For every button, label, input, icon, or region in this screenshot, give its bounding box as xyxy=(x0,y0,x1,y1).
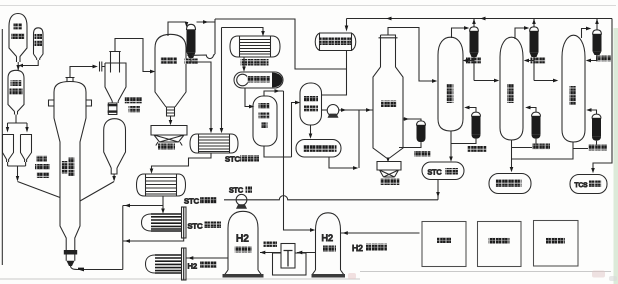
vessel: gas-liquid separator xyxy=(253,96,277,146)
wire STC exchanger bottom to STC heater xyxy=(152,153,212,171)
wire hoppers to chute xyxy=(8,162,26,180)
wire reboiler C to column C xyxy=(573,110,597,149)
wire hop return to wash tower xyxy=(192,55,215,59)
wire water cooler gas out loop xyxy=(197,19,216,54)
condenser: water cooler A xyxy=(470,27,479,32)
collector tank 1 xyxy=(151,126,187,146)
vessel: H2 storage tank xyxy=(313,213,344,274)
svg-text:H2: H2 xyxy=(352,243,363,253)
svg-text:TCS: TCS xyxy=(575,182,589,189)
wire condenser A reflux and product xyxy=(467,57,495,81)
border bottom xyxy=(0,272,611,280)
pump: stripper feed pump xyxy=(322,109,328,111)
utility box: refrigeration station xyxy=(534,221,579,267)
wire column A overhead xyxy=(452,28,467,38)
wire top bus xyxy=(347,19,613,171)
green right edge strip xyxy=(614,28,618,284)
wash tower bottom outlet flange xyxy=(167,107,175,116)
wire cold loop box xyxy=(215,19,347,95)
wire chiller2 to gas-liquid separator xyxy=(245,88,250,107)
wire reboiler A to column A xyxy=(451,108,476,144)
vessel: cyclone dust bin xyxy=(104,119,126,174)
vessel: chlorosilane intermediate tank xyxy=(300,83,322,125)
reactor bottom flange xyxy=(64,250,77,255)
vessel: H2 buffer tank xyxy=(225,211,261,274)
wire STC electric heater outlet to reactor loop xyxy=(123,238,184,241)
wire dust chute into reactor xyxy=(80,182,114,202)
wire top bus to waste gas station xyxy=(346,19,348,27)
watermark smudge left xyxy=(348,273,356,279)
reboiler: column B reboiler xyxy=(532,112,541,116)
label: water cooler C xyxy=(596,56,611,62)
vessel: STC storage tank xyxy=(422,162,464,180)
wire condenser B reflux and product xyxy=(528,57,554,81)
wire pump to stripper column xyxy=(339,109,373,111)
wire chute into reactor xyxy=(18,182,61,198)
wire reactor loop vertical xyxy=(122,206,124,270)
label: water cooler B xyxy=(531,58,546,64)
label: collector tank 2 xyxy=(381,179,400,186)
wire left recycle line xyxy=(1,29,3,265)
label: wash tower xyxy=(161,58,178,65)
wire STC tank to pump line xyxy=(437,180,439,200)
heat exchanger: STC electric heater xyxy=(142,214,152,231)
label: chlorination reactor xyxy=(69,158,75,177)
wire wash tower overhead to water cooler xyxy=(168,22,187,36)
wire condenser A vent to bus xyxy=(473,19,475,27)
wire drying bin down to transfer bin xyxy=(17,62,19,70)
label: distillation column B xyxy=(507,84,514,103)
wire cold line to first-stage chiller xyxy=(222,28,264,132)
reactor bottom valve xyxy=(67,261,75,266)
wire stripper to reboiler xyxy=(399,119,421,148)
vessel: buffer bin xyxy=(34,28,44,60)
wire branch to reactor loop upper xyxy=(123,205,163,207)
wire column C overhead xyxy=(582,29,589,39)
wire stripper bottoms to collector xyxy=(387,158,389,160)
water cooler (wash gas) xyxy=(187,24,196,30)
wire transfer bin split to two feed hoppers xyxy=(8,115,28,130)
vessel: feed hopper 2 xyxy=(21,135,32,163)
wire condenser C reflux xyxy=(590,55,598,61)
svg-text:H2: H2 xyxy=(236,234,249,245)
vessel: chlorosilane storage tank xyxy=(296,140,341,158)
utility box: purification room xyxy=(422,222,466,267)
heat exchanger: H2 electric heater xyxy=(146,255,156,273)
wire compressor to H2 buffer tank xyxy=(260,252,281,254)
wire buffer bin to transfer line xyxy=(23,60,38,66)
heat exchanger: STC heat exchanger xyxy=(190,134,238,153)
column: stripper column xyxy=(373,35,403,158)
reactor top nozzle xyxy=(66,78,75,83)
svg-text:H2: H2 xyxy=(188,262,198,271)
wire condenser C vent to bus xyxy=(596,19,598,30)
wire H2 buffer tank to H2 electric heater xyxy=(186,257,228,259)
reactor: chlorination reactor xyxy=(54,82,86,251)
wire STC tank to pump suction xyxy=(224,196,438,200)
utility box: chilled brine station xyxy=(478,222,522,267)
label: column C reboiler xyxy=(588,145,607,151)
wire H2 tank to compressor xyxy=(297,252,316,254)
svg-text:STC: STC xyxy=(188,222,204,231)
wire STC heater to STC electric heater xyxy=(162,196,164,211)
vessel: TCS storage tank xyxy=(570,175,607,194)
wire condenser B vent to bus xyxy=(533,19,535,27)
wire reactor bottom H2 feed xyxy=(71,266,123,270)
vessel: waste gas treatment station xyxy=(315,33,356,51)
wire chiller1 to chiller2 xyxy=(243,57,245,69)
cyclone separator xyxy=(105,63,126,103)
svg-text:STC: STC xyxy=(184,197,200,206)
label: H2 compressor xyxy=(264,242,278,248)
condenser: water cooler C xyxy=(593,30,602,35)
label: water cooler xyxy=(185,59,199,65)
heat exchanger: first-stage chiller xyxy=(230,36,280,57)
wire reboiler B to column B xyxy=(512,108,537,148)
wire column A bottoms to STC tank xyxy=(450,131,452,159)
vessel: silicon powder drying bin xyxy=(9,14,27,63)
svg-text:STC: STC xyxy=(225,155,241,164)
label: distillation column A xyxy=(447,84,454,103)
label: feed hoppers (two) xyxy=(36,156,47,162)
wire column B overhead xyxy=(515,28,526,39)
label: collector tank 1 xyxy=(158,144,175,151)
reactor side lugs xyxy=(49,100,92,106)
reboiler: column A reboiler xyxy=(472,112,481,116)
wire separator liquid to intermediate tank xyxy=(264,103,296,158)
column: distillation column A xyxy=(438,37,463,131)
svg-text:STC: STC xyxy=(229,188,243,195)
reboiler: column C reboiler xyxy=(592,114,601,118)
wire wash tower to collector xyxy=(170,116,172,122)
label: column A reboiler xyxy=(468,146,487,152)
pump: STC pump xyxy=(236,194,247,205)
border top xyxy=(0,5,616,7)
reboiler: stripper reboiler xyxy=(417,121,426,126)
wire column C bottoms to residue line xyxy=(512,142,574,159)
wire reactor top to cyclone xyxy=(70,62,105,78)
label: column B reboiler xyxy=(532,144,550,150)
label: cyclone separator xyxy=(125,97,142,103)
label: stripper column xyxy=(381,101,397,108)
heat exchanger: STC heater xyxy=(137,174,186,196)
wire water cooler bottom to STC exchanger xyxy=(191,58,211,131)
cyclone bottom flanged outlet xyxy=(108,103,117,115)
column: wash tower xyxy=(155,34,186,107)
wire stripper overhead to column A xyxy=(388,28,432,82)
label: first-stage chiller xyxy=(241,59,269,66)
vessel: feed hopper 1 xyxy=(3,135,14,163)
condenser: water cooler B xyxy=(530,27,539,32)
svg-text:STC: STC xyxy=(428,170,442,177)
wire H2 from electrolyzer xyxy=(341,232,420,234)
label: distillation column C xyxy=(569,86,576,105)
column: distillation column B xyxy=(500,37,523,140)
compressor: H2 compressor xyxy=(273,253,307,275)
wire intermediate tank to chlorosilane storage xyxy=(310,125,312,136)
collector tank 2 xyxy=(377,162,401,178)
wire chlorosilane storage to stripper feed line xyxy=(329,110,359,168)
label: stripper reboiler xyxy=(414,151,431,157)
column: distillation column C xyxy=(562,35,585,142)
heat exchanger: second-stage chiller xyxy=(234,72,283,88)
wire separator gas recycle down to compressor area xyxy=(264,91,310,230)
label: water cooler A xyxy=(466,58,481,64)
vessel: silicon powder transfer bin xyxy=(8,70,24,114)
wire cyclone gas to wash tower xyxy=(115,39,150,72)
svg-text:H2: H2 xyxy=(322,233,334,243)
vessel: residue storage tank xyxy=(489,174,531,194)
wire dust bin down xyxy=(113,174,115,180)
cyclone inner tube xyxy=(109,52,120,73)
watermark smudge right xyxy=(592,271,605,278)
wire column B bottoms to residue tank xyxy=(511,140,513,168)
reactor bottom outlet xyxy=(66,255,75,261)
